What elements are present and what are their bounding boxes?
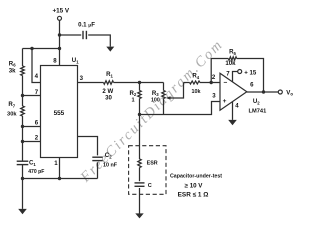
svg-text:1: 1 xyxy=(54,160,58,167)
svg-text:+15 V: +15 V xyxy=(52,8,69,15)
svg-text:−: − xyxy=(223,79,227,86)
svg-text:Capacitor-under-test: Capacitor-under-test xyxy=(170,174,222,180)
svg-text:30k: 30k xyxy=(7,111,17,117)
svg-text:+: + xyxy=(223,98,227,105)
svg-text:2: 2 xyxy=(35,135,39,142)
svg-text:+ 15: + 15 xyxy=(244,69,257,76)
svg-text:6: 6 xyxy=(35,119,39,126)
svg-text:0.1 μF: 0.1 μF xyxy=(78,22,95,29)
svg-text:10k: 10k xyxy=(192,89,201,95)
svg-text:470 pF: 470 pF xyxy=(28,169,44,175)
svg-text:30: 30 xyxy=(105,94,112,101)
svg-text:3k: 3k xyxy=(9,67,16,74)
svg-text:1: 1 xyxy=(131,98,134,104)
svg-text:ESR ≤ 1 Ω: ESR ≤ 1 Ω xyxy=(178,191,209,198)
svg-text:555: 555 xyxy=(54,110,65,117)
svg-text:10k: 10k xyxy=(225,60,236,67)
svg-text:ESR: ESR xyxy=(147,161,158,167)
svg-text:4: 4 xyxy=(235,102,239,109)
svg-text:100: 100 xyxy=(151,98,160,104)
svg-text:C: C xyxy=(148,183,152,189)
svg-text:≥ 10 V: ≥ 10 V xyxy=(185,183,204,190)
svg-text:LM741: LM741 xyxy=(249,109,267,115)
svg-text:10 nF: 10 nF xyxy=(103,162,118,168)
